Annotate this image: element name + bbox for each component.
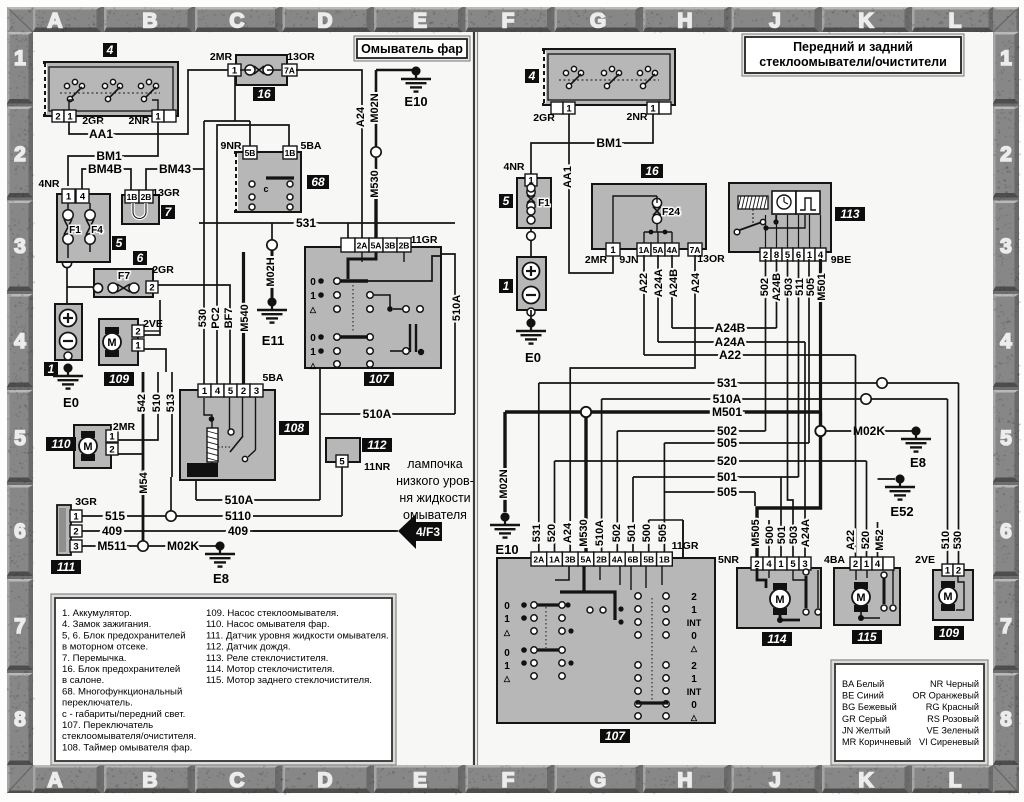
svg-text:E52: E52	[890, 504, 913, 519]
svg-text:M02N: M02N	[498, 469, 510, 498]
svg-text:4NR: 4NR	[38, 178, 59, 190]
svg-text:109. Насос стеклоомывателя.: 109. Насос стеклоомывателя.	[206, 608, 339, 619]
svg-text:4A: 4A	[667, 245, 678, 255]
svg-text:1: 1	[1000, 47, 1012, 70]
svg-text:520: 520	[717, 454, 737, 468]
svg-text:6B: 6B	[628, 555, 639, 565]
svg-text:1: 1	[73, 512, 79, 523]
svg-text:D: D	[317, 769, 332, 792]
svg-text:J: J	[769, 769, 781, 792]
svg-text:7. Перемычка.: 7. Перемычка.	[62, 653, 126, 664]
svg-text:стеклоомывателя/очистителя.: стеклоомывателя/очистителя.	[62, 731, 196, 742]
svg-text:409: 409	[228, 524, 248, 538]
svg-text:A24A: A24A	[653, 269, 665, 297]
svg-text:0: 0	[504, 601, 510, 612]
svg-text:L: L	[949, 10, 962, 33]
svg-text:M530: M530	[578, 519, 590, 547]
svg-text:JN Желтый: JN Желтый	[842, 725, 890, 735]
svg-text:1: 1	[135, 341, 141, 352]
svg-text:1: 1	[691, 674, 697, 685]
svg-text:2: 2	[135, 327, 140, 338]
svg-text:1: 1	[807, 250, 813, 261]
svg-text:1: 1	[945, 566, 951, 577]
svg-text:4: 4	[106, 43, 114, 57]
svg-text:переключатель.: переключатель.	[62, 698, 133, 709]
svg-text:5: 5	[116, 236, 123, 250]
svg-text:E: E	[413, 10, 427, 33]
svg-text:1A: 1A	[639, 245, 650, 255]
svg-text:2GR: 2GR	[152, 264, 174, 276]
svg-text:11GR: 11GR	[672, 540, 699, 552]
svg-text:BM1: BM1	[96, 149, 122, 163]
svg-text:1: 1	[310, 347, 316, 358]
svg-text:1: 1	[504, 661, 510, 672]
svg-text:△: △	[503, 674, 511, 683]
svg-text:BF7: BF7	[223, 308, 235, 329]
svg-text:BM4B: BM4B	[88, 162, 122, 176]
svg-text:M: M	[775, 594, 784, 606]
svg-text:INT: INT	[687, 687, 702, 697]
svg-text:M52: M52	[874, 529, 886, 550]
svg-text:5B: 5B	[643, 555, 654, 565]
svg-text:D: D	[317, 10, 332, 33]
svg-text:5BA: 5BA	[262, 372, 283, 384]
svg-text:510A: 510A	[451, 295, 463, 321]
svg-text:M: M	[943, 591, 952, 603]
svg-text:M: M	[107, 337, 116, 349]
svg-text:1: 1	[778, 559, 784, 570]
svg-text:A24A: A24A	[800, 519, 812, 547]
svg-text:520: 520	[860, 531, 872, 549]
svg-text:C: C	[229, 769, 244, 792]
svg-text:M02N: M02N	[369, 93, 381, 122]
svg-text:3: 3	[14, 235, 26, 258]
svg-text:F24: F24	[662, 206, 680, 218]
svg-text:5: 5	[503, 194, 510, 208]
svg-text:16: 16	[645, 164, 659, 178]
svg-text:2: 2	[149, 283, 154, 294]
svg-text:111. Датчик уровня жидкости ом: 111. Датчик уровня жидкости омывателя.	[206, 630, 389, 641]
svg-text:2: 2	[73, 527, 78, 538]
svg-text:△: △	[309, 361, 317, 370]
svg-text:2: 2	[109, 445, 114, 456]
svg-text:0: 0	[691, 631, 697, 642]
svg-text:K: K	[858, 769, 873, 792]
svg-text:8: 8	[14, 708, 26, 731]
svg-text:530: 530	[952, 531, 964, 549]
svg-text:A24A: A24A	[715, 335, 746, 349]
svg-text:F1: F1	[538, 198, 550, 209]
svg-text:A22: A22	[845, 530, 857, 550]
svg-text:113: 113	[840, 207, 859, 221]
svg-text:1: 1	[566, 104, 572, 115]
svg-text:E8: E8	[213, 571, 229, 586]
svg-text:A24: A24	[355, 106, 367, 127]
svg-text:E11: E11	[262, 333, 284, 348]
svg-text:112. Датчик дождя.: 112. Датчик дождя.	[206, 642, 291, 653]
svg-text:115: 115	[857, 630, 876, 644]
svg-text:4: 4	[875, 559, 881, 570]
svg-text:5BA: 5BA	[300, 140, 321, 152]
svg-text:A24B: A24B	[668, 269, 680, 297]
svg-text:3B: 3B	[565, 555, 576, 565]
svg-text:513: 513	[165, 394, 177, 412]
svg-text:2VE: 2VE	[915, 554, 935, 566]
svg-text:E0: E0	[525, 350, 541, 365]
svg-text:c: c	[263, 184, 268, 194]
svg-text:2A: 2A	[533, 555, 544, 565]
svg-text:1: 1	[202, 386, 208, 397]
svg-text:0: 0	[504, 648, 510, 659]
svg-text:500: 500	[641, 524, 653, 542]
svg-text:F: F	[502, 769, 515, 792]
svg-text:M505: M505	[750, 519, 762, 547]
svg-text:△: △	[309, 305, 317, 314]
svg-text:505: 505	[657, 524, 669, 542]
svg-text:9JN: 9JN	[619, 254, 638, 266]
svg-text:△: △	[690, 713, 698, 722]
svg-text:109: 109	[109, 372, 129, 386]
svg-text:7: 7	[14, 615, 26, 638]
svg-text:530: 530	[197, 309, 209, 327]
svg-text:9NR: 9NR	[220, 140, 241, 152]
svg-text:2: 2	[956, 566, 961, 577]
svg-text:505: 505	[717, 436, 737, 450]
svg-text:115. Мотор заднего стеклочисти: 115. Мотор заднего стеклочистителя.	[206, 675, 372, 686]
svg-text:7: 7	[1000, 615, 1012, 638]
svg-text:501: 501	[626, 524, 638, 542]
svg-text:4: 4	[766, 559, 772, 570]
svg-text:A22: A22	[719, 348, 741, 362]
svg-text:4: 4	[215, 386, 221, 397]
svg-text:1. Аккумулятор.: 1. Аккумулятор.	[62, 608, 132, 619]
svg-text:0: 0	[310, 277, 316, 288]
svg-text:11NR: 11NR	[364, 461, 391, 473]
svg-text:4: 4	[14, 330, 26, 353]
svg-text:503: 503	[788, 526, 800, 544]
svg-text:2: 2	[691, 592, 697, 603]
svg-text:1: 1	[232, 66, 238, 77]
svg-text:ня жидкости: ня жидкости	[399, 491, 470, 505]
svg-text:M02K: M02K	[167, 539, 199, 553]
svg-text:лампочка: лампочка	[407, 457, 463, 471]
svg-text:502: 502	[611, 524, 623, 542]
svg-text:1: 1	[864, 559, 870, 570]
svg-text:E10: E10	[404, 94, 427, 109]
svg-text:G: G	[590, 10, 606, 33]
svg-text:PC2: PC2	[210, 307, 222, 328]
svg-text:F7: F7	[118, 270, 130, 282]
svg-text:68. Многофункциональный: 68. Многофункциональный	[62, 686, 182, 697]
svg-text:3B: 3B	[385, 241, 396, 251]
svg-text:505: 505	[717, 485, 737, 499]
svg-text:G: G	[590, 769, 606, 792]
svg-text:107. Переключатель: 107. Переключатель	[62, 720, 153, 731]
svg-text:A24B: A24B	[771, 273, 783, 301]
svg-text:2: 2	[14, 143, 26, 166]
svg-text:9BE: 9BE	[831, 254, 851, 266]
svg-text:16. Блок предохранителей: 16. Блок предохранителей	[62, 664, 180, 675]
svg-text:GR Серый: GR Серый	[842, 714, 887, 724]
svg-text:110: 110	[51, 437, 70, 451]
svg-text:5: 5	[14, 427, 26, 450]
svg-text:108. Таймер омывателя фар.: 108. Таймер омывателя фар.	[62, 742, 192, 753]
svg-text:M54: M54	[138, 471, 150, 493]
svg-text:1: 1	[310, 291, 316, 302]
svg-text:520: 520	[546, 524, 558, 542]
svg-text:A24: A24	[562, 522, 574, 543]
svg-text:0: 0	[310, 333, 316, 344]
svg-text:H: H	[677, 769, 692, 792]
svg-text:в салоне.: в салоне.	[62, 675, 104, 686]
svg-text:107: 107	[605, 729, 626, 743]
svg-text:M501: M501	[816, 273, 828, 301]
svg-text:C: C	[229, 10, 244, 33]
svg-text:110. Насос омывателя фар.: 110. Насос омывателя фар.	[206, 619, 330, 630]
svg-text:4BA: 4BA	[824, 554, 845, 566]
svg-text:Омыватель фар: Омыватель фар	[361, 42, 463, 56]
svg-text:5NR: 5NR	[718, 554, 739, 566]
svg-text:7A: 7A	[284, 66, 295, 76]
svg-text:M02H: M02H	[265, 257, 277, 286]
svg-text:NR Черный: NR Черный	[930, 679, 979, 689]
svg-text:6: 6	[14, 520, 26, 543]
svg-text:5110: 5110	[225, 509, 251, 523]
svg-text:2: 2	[241, 386, 246, 397]
svg-text:H: H	[677, 10, 692, 33]
svg-text:△: △	[690, 644, 698, 653]
svg-text:5A: 5A	[653, 245, 664, 255]
svg-text:1A: 1A	[549, 555, 560, 565]
svg-text:F1: F1	[69, 225, 81, 236]
svg-text:F4: F4	[91, 225, 103, 236]
svg-text:E8: E8	[910, 455, 926, 470]
svg-text:2MR: 2MR	[210, 51, 233, 63]
svg-text:107: 107	[369, 372, 390, 386]
svg-text:A: A	[47, 769, 62, 792]
svg-text:111: 111	[57, 560, 76, 574]
svg-text:2B: 2B	[596, 555, 607, 565]
svg-text:M530: M530	[369, 170, 381, 198]
svg-text:4: 4	[80, 192, 86, 203]
svg-text:4: 4	[1000, 330, 1012, 353]
svg-text:2A: 2A	[357, 241, 368, 251]
svg-text:2: 2	[853, 559, 858, 570]
svg-text:2: 2	[55, 112, 60, 123]
svg-text:500: 500	[764, 526, 776, 544]
svg-text:2GR: 2GR	[533, 112, 555, 124]
svg-text:4/F3: 4/F3	[416, 525, 440, 539]
svg-text:510A: 510A	[594, 520, 606, 546]
svg-text:13OR: 13OR	[287, 51, 315, 63]
svg-text:E0: E0	[63, 395, 79, 410]
svg-text:2GR: 2GR	[82, 115, 104, 127]
svg-text:VE Зеленый: VE Зеленый	[927, 725, 979, 735]
svg-text:3: 3	[1000, 235, 1012, 258]
svg-text:3GR: 3GR	[75, 496, 97, 508]
svg-text:M540: M540	[239, 304, 251, 332]
svg-text:510A: 510A	[225, 493, 254, 507]
svg-text:BM1: BM1	[596, 136, 622, 150]
svg-text:MR Коричневый: MR Коричневый	[842, 737, 911, 747]
svg-text:OR Оранжевый: OR Оранжевый	[912, 691, 979, 701]
svg-text:2NR: 2NR	[128, 115, 149, 127]
svg-text:A22: A22	[638, 273, 650, 293]
svg-text:BM43: BM43	[159, 162, 191, 176]
svg-text:2B: 2B	[399, 241, 410, 251]
svg-text:с - габариты/передний свет.: с - габариты/передний свет.	[62, 709, 185, 720]
svg-text:11GR: 11GR	[411, 234, 438, 246]
svg-text:542: 542	[136, 394, 148, 412]
svg-text:1: 1	[67, 112, 73, 123]
svg-text:1: 1	[610, 245, 616, 256]
svg-text:510A: 510A	[363, 407, 392, 421]
svg-text:RG Красный: RG Красный	[926, 702, 979, 712]
svg-text:3: 3	[254, 386, 259, 397]
svg-text:BG Бежевый: BG Бежевый	[842, 702, 897, 712]
svg-text:Передний и задний: Передний и задний	[793, 40, 913, 54]
svg-text:8: 8	[1000, 708, 1012, 731]
svg-text:RS Розовый: RS Розовый	[927, 714, 979, 724]
svg-text:1: 1	[691, 605, 697, 616]
svg-text:2VE: 2VE	[143, 318, 163, 330]
svg-text:6: 6	[137, 251, 144, 265]
svg-text:AA1: AA1	[89, 127, 113, 141]
svg-text:510: 510	[151, 394, 163, 412]
svg-text:1: 1	[66, 192, 72, 203]
svg-text:114. Мотор стеклочистителя.: 114. Мотор стеклочистителя.	[206, 664, 335, 675]
svg-text:2MR: 2MR	[113, 421, 136, 433]
svg-text:4. Замок зажигания.: 4. Замок зажигания.	[62, 619, 151, 630]
svg-text:1B: 1B	[659, 555, 670, 565]
svg-text:4A: 4A	[612, 555, 623, 565]
svg-text:1B: 1B	[127, 192, 138, 202]
svg-text:стеклоомыватели/очистители: стеклоомыватели/очистители	[759, 55, 947, 69]
svg-text:112: 112	[367, 438, 386, 452]
svg-text:0: 0	[691, 700, 697, 711]
svg-text:1: 1	[155, 112, 161, 123]
svg-text:109: 109	[939, 626, 959, 640]
svg-text:AA1: AA1	[562, 166, 574, 188]
svg-text:L: L	[949, 769, 962, 792]
svg-text:2B: 2B	[141, 192, 152, 202]
svg-text:B: B	[142, 769, 157, 792]
svg-text:531: 531	[296, 216, 316, 230]
svg-text:M501: M501	[712, 405, 742, 419]
svg-text:13OR: 13OR	[697, 253, 725, 265]
svg-text:E10: E10	[495, 542, 518, 557]
svg-text:M: M	[856, 592, 865, 604]
svg-text:1: 1	[650, 104, 656, 115]
svg-text:108: 108	[284, 421, 304, 435]
svg-text:△: △	[503, 628, 511, 637]
svg-text:4NR: 4NR	[503, 161, 524, 173]
svg-text:2NR: 2NR	[626, 111, 647, 123]
svg-text:5A: 5A	[371, 241, 382, 251]
svg-text:68: 68	[311, 175, 325, 189]
svg-text:6: 6	[1000, 520, 1012, 543]
svg-text:BA Белый: BA Белый	[842, 679, 884, 689]
svg-text:502: 502	[759, 278, 771, 296]
svg-text:в моторном отсеке.: в моторном отсеке.	[62, 642, 148, 653]
svg-text:K: K	[858, 10, 873, 33]
svg-text:13GR: 13GR	[152, 187, 180, 199]
svg-text:501: 501	[717, 470, 737, 484]
svg-text:1B: 1B	[285, 148, 296, 158]
svg-text:1: 1	[503, 279, 510, 293]
svg-text:INT: INT	[687, 618, 702, 628]
svg-text:1: 1	[109, 432, 115, 443]
svg-text:1: 1	[504, 614, 510, 625]
svg-text:M: M	[83, 441, 92, 453]
svg-text:5: 5	[339, 457, 345, 468]
svg-text:5: 5	[1000, 427, 1012, 450]
svg-text:2: 2	[1000, 143, 1012, 166]
svg-text:F: F	[502, 10, 515, 33]
svg-text:5: 5	[790, 559, 796, 570]
svg-text:1: 1	[48, 362, 55, 376]
svg-text:510: 510	[940, 531, 952, 549]
svg-text:1: 1	[14, 47, 26, 70]
svg-text:A: A	[47, 10, 62, 33]
svg-text:низкого уров-: низкого уров-	[396, 474, 474, 488]
svg-text:A24: A24	[690, 272, 702, 293]
svg-text:B: B	[142, 10, 157, 33]
svg-text:BE Синий: BE Синий	[842, 691, 884, 701]
svg-text:VI Сиреневый: VI Сиреневый	[919, 737, 979, 747]
svg-text:409: 409	[102, 524, 122, 538]
svg-text:E: E	[413, 769, 427, 792]
svg-text:510A: 510A	[713, 392, 742, 406]
svg-text:501: 501	[776, 526, 788, 544]
svg-text:5, 6. Блок предохранителей: 5, 6. Блок предохранителей	[62, 630, 186, 641]
svg-text:2MR: 2MR	[585, 254, 608, 266]
svg-text:5A: 5A	[581, 555, 592, 565]
svg-text:M02K: M02K	[853, 424, 885, 438]
svg-text:515: 515	[105, 509, 125, 523]
svg-text:114: 114	[767, 632, 786, 646]
svg-text:113. Реле стеклочистителя.: 113. Реле стеклочистителя.	[206, 653, 328, 664]
svg-text:5: 5	[228, 386, 234, 397]
svg-text:5B: 5B	[245, 148, 256, 158]
svg-text:M511: M511	[97, 539, 127, 553]
svg-text:16: 16	[257, 87, 271, 101]
svg-text:2: 2	[691, 661, 697, 672]
svg-text:3: 3	[73, 542, 78, 553]
svg-text:4: 4	[528, 69, 536, 83]
svg-text:531: 531	[717, 376, 737, 390]
svg-text:531: 531	[531, 524, 543, 542]
svg-text:J: J	[769, 10, 781, 33]
svg-text:A24B: A24B	[715, 321, 746, 335]
